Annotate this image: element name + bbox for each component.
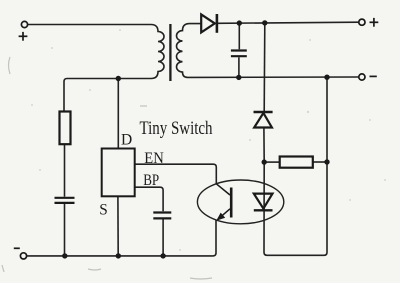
svg-text:S: S: [99, 201, 108, 218]
svg-text:Tiny Switch: Tiny Switch: [140, 118, 213, 139]
svg-text:EN: EN: [144, 150, 164, 167]
svg-text:D: D: [121, 132, 132, 149]
svg-text:BP: BP: [143, 172, 159, 189]
